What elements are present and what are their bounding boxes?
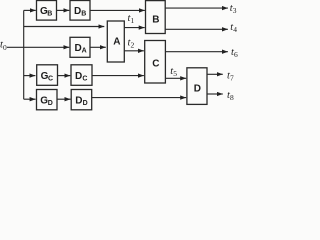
svg-text:B: B xyxy=(47,11,52,18)
svg-text:5: 5 xyxy=(173,69,177,78)
svg-text:D: D xyxy=(194,84,201,95)
wire C out t6 xyxy=(165,51,228,53)
svg-text:D: D xyxy=(75,95,82,106)
svg-text:B: B xyxy=(81,11,86,18)
block B xyxy=(146,1,166,34)
svg-text:D: D xyxy=(48,100,53,107)
wire D out t7 xyxy=(207,73,223,75)
svg-text:A: A xyxy=(113,37,120,48)
svg-text:8: 8 xyxy=(230,93,234,102)
wire B out t3 xyxy=(165,7,228,9)
svg-text:4: 4 xyxy=(233,25,237,34)
wire t0 bus vertical xyxy=(23,10,25,99)
wire G_B to D_B xyxy=(57,9,70,11)
svg-text:C: C xyxy=(48,75,53,82)
block C xyxy=(145,41,166,84)
block G_D xyxy=(37,90,58,110)
svg-text:D: D xyxy=(74,6,81,17)
wire D_A to A xyxy=(90,46,106,48)
wire bus to G_B xyxy=(24,9,36,11)
svg-text:7: 7 xyxy=(230,74,234,83)
svg-text:A: A xyxy=(82,47,87,54)
block G_B xyxy=(37,1,57,21)
svg-text:D: D xyxy=(75,71,82,82)
block D_C xyxy=(71,65,92,86)
svg-text:C: C xyxy=(152,59,159,70)
wire B out t4 xyxy=(165,28,228,30)
block A xyxy=(107,21,124,62)
svg-text:C: C xyxy=(82,75,87,82)
svg-text:3: 3 xyxy=(233,6,237,15)
svg-text:6: 6 xyxy=(234,50,238,59)
wire bus to A upper xyxy=(24,26,105,28)
wire G_D to D_D xyxy=(57,98,71,100)
block D_B xyxy=(70,1,90,21)
wire bus to G_D xyxy=(24,98,36,100)
wire D_B to B xyxy=(90,9,145,11)
wire D_C to C xyxy=(92,75,144,77)
svg-text:0: 0 xyxy=(3,43,7,52)
wire G_C to D_C xyxy=(57,75,70,77)
node t0 input wire xyxy=(7,46,69,48)
svg-text:1: 1 xyxy=(131,16,135,25)
block G_C xyxy=(37,65,58,86)
wire bus to G_C xyxy=(24,75,36,77)
wire A to C t2 xyxy=(124,50,144,52)
wire D_D to D xyxy=(92,97,187,99)
block D_D xyxy=(71,90,92,110)
svg-text:D: D xyxy=(83,100,88,107)
wire A to B t1 xyxy=(124,27,145,29)
wire C to D t5 xyxy=(165,77,186,79)
svg-text:2: 2 xyxy=(131,40,135,49)
block D xyxy=(187,68,207,105)
wire D out t8 xyxy=(207,93,223,95)
block D_A xyxy=(70,37,90,57)
svg-text:B: B xyxy=(152,14,159,25)
